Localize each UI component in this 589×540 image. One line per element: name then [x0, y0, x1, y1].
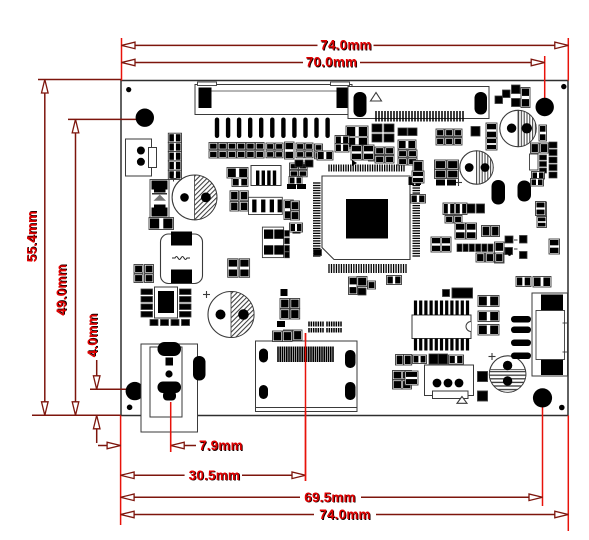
svg-text:49.0mm: 49.0mm: [54, 264, 69, 315]
capacitor C17: [478, 372, 488, 382]
U1 right pin comb: [413, 183, 421, 256]
resistor row R8: [431, 237, 504, 262]
electrolytic capacitor C4 (bottom-left): [203, 291, 254, 338]
mounting hole bottom-right: [533, 388, 552, 407]
FFC connector J2 top-right: [348, 87, 489, 119]
capacitor group C12: [409, 160, 459, 203]
main IC U1 (QFP) body: [322, 176, 410, 260]
dimension 74.0mm top: [122, 38, 569, 81]
capacitor C10: [232, 178, 248, 187]
regulator IC U2 (SOIC-8): [141, 287, 191, 326]
capacitor C6: [149, 218, 174, 230]
U1 bottom pin comb: [329, 264, 406, 273]
inductor L1: [161, 232, 203, 284]
svg-text:70.0mm: 70.0mm: [306, 55, 357, 70]
svg-text:55.4mm: 55.4mm: [24, 211, 39, 262]
U1 top pin comb: [329, 165, 404, 172]
electrolytic capacitor C5 (bottom-right): [489, 353, 526, 392]
pad column P5: [537, 202, 547, 228]
capacitor bank C15: [277, 321, 302, 341]
mounting hole bottom-left: [126, 382, 144, 400]
dimension 74.0mm bottom: [121, 416, 569, 532]
pad group P13: [405, 371, 418, 385]
HDMI connector J4: [256, 341, 358, 412]
capacitor C18: [478, 391, 488, 401]
resistor array RN2: [249, 197, 283, 214]
pin pill P10: [193, 356, 206, 381]
resistor group R3: [335, 124, 394, 163]
capacitor bank C19: [230, 191, 248, 211]
diode array D4: [511, 316, 531, 359]
J2 pin comb: [376, 111, 463, 122]
svg-text:69.5mm: 69.5mm: [304, 490, 355, 505]
capacitor bank C8: [134, 265, 154, 283]
svg-text:74.0mm: 74.0mm: [320, 38, 371, 53]
U3 top pin comb: [416, 301, 468, 316]
extension line overlay 30.5mm: [305, 333, 307, 481]
fiducial dot top-right: [561, 84, 566, 89]
dimension 49.0mm left: [54, 119, 145, 415]
pad group P3: [495, 85, 530, 108]
capacitor C13: [349, 277, 358, 295]
svg-text:4.0mm: 4.0mm: [85, 314, 100, 358]
resistor group R6: [455, 223, 527, 249]
resistor group R5: [443, 202, 546, 224]
fiducial dot bottom-left: [127, 405, 133, 411]
pad group P12 (quad): [262, 227, 300, 258]
tantalum D3: [518, 181, 532, 202]
svg-text:74.0mm: 74.0mm: [319, 507, 370, 522]
dimension 55.4mm left: [24, 80, 121, 416]
capacitor C9: [227, 168, 248, 179]
dimension 30.5mm bottom: [121, 333, 306, 484]
resistor group R4: [352, 128, 417, 166]
IC U4 (SOT): [251, 166, 281, 186]
resistor row R7: [457, 239, 560, 263]
pad group P7 (QFP left): [295, 151, 333, 167]
PCB board outline: [121, 81, 568, 416]
svg-text:7.9mm: 7.9mm: [199, 438, 243, 453]
IC U3 (SOIC-16): [412, 315, 471, 339]
electrolytic capacitor C1 (top-left): [172, 175, 217, 220]
capacitor group C11: [436, 129, 462, 145]
extension line overlay 7.9mm: [170, 402, 172, 452]
resistor column RN1: [168, 133, 181, 181]
resistor band R-row1: [209, 143, 264, 159]
resistor pair R9: [516, 277, 551, 288]
index triangle mark: [371, 93, 382, 102]
capacitor bank C14: [280, 289, 300, 319]
resistor group R2: [287, 163, 307, 189]
svg-text:30.5mm: 30.5mm: [189, 468, 240, 483]
dimension 70.0mm top: [122, 55, 545, 107]
polarity pill P1: [354, 92, 367, 117]
IC U5: [443, 288, 473, 298]
fiducial dot top-left: [126, 87, 131, 92]
diode D1: [150, 180, 169, 218]
dimension 7.9mm bottom: [98, 402, 244, 525]
2-pin connector J3 left edge: [126, 139, 157, 176]
resistor band R-row2: [266, 142, 323, 159]
mounting hole top-right: [536, 98, 554, 116]
mounting hole top-left: [136, 109, 154, 127]
electrolytic capacitor C2 (top-right): [500, 110, 536, 146]
capacitor pair C21: [228, 259, 250, 278]
USB connector J7: [532, 293, 568, 376]
3-pin connector J6: [425, 365, 474, 403]
tantalum D2: [492, 180, 506, 205]
J4 pin comb: [278, 347, 333, 363]
resistor stack R11: [478, 296, 499, 336]
dimension 69.5mm bottom: [121, 398, 543, 506]
pad group P11: [273, 331, 293, 342]
dimension 4.0mm left: [85, 313, 130, 443]
fiducial dot bottom-right: [559, 405, 565, 411]
U1 left pin comb: [313, 183, 321, 256]
capacitor bank C16: [393, 371, 412, 390]
capacitor C20: [284, 200, 293, 220]
pad group P2: [471, 123, 497, 150]
pad P9: [314, 250, 322, 256]
pad group P8: [357, 276, 402, 296]
crystal X1 pads: [309, 322, 341, 333]
J1 pin row: [215, 118, 330, 139]
U3 bottom pin comb: [416, 339, 468, 351]
J2 end pill: [475, 92, 488, 115]
DC jack J5: [141, 342, 198, 432]
resistor row R10: [396, 354, 464, 365]
pad column P4: [530, 125, 558, 186]
electrolytic capacitor C3 (right-mid): [455, 151, 493, 186]
FFC connector J1 top-left: [195, 82, 352, 115]
pad group P6: [290, 201, 303, 232]
